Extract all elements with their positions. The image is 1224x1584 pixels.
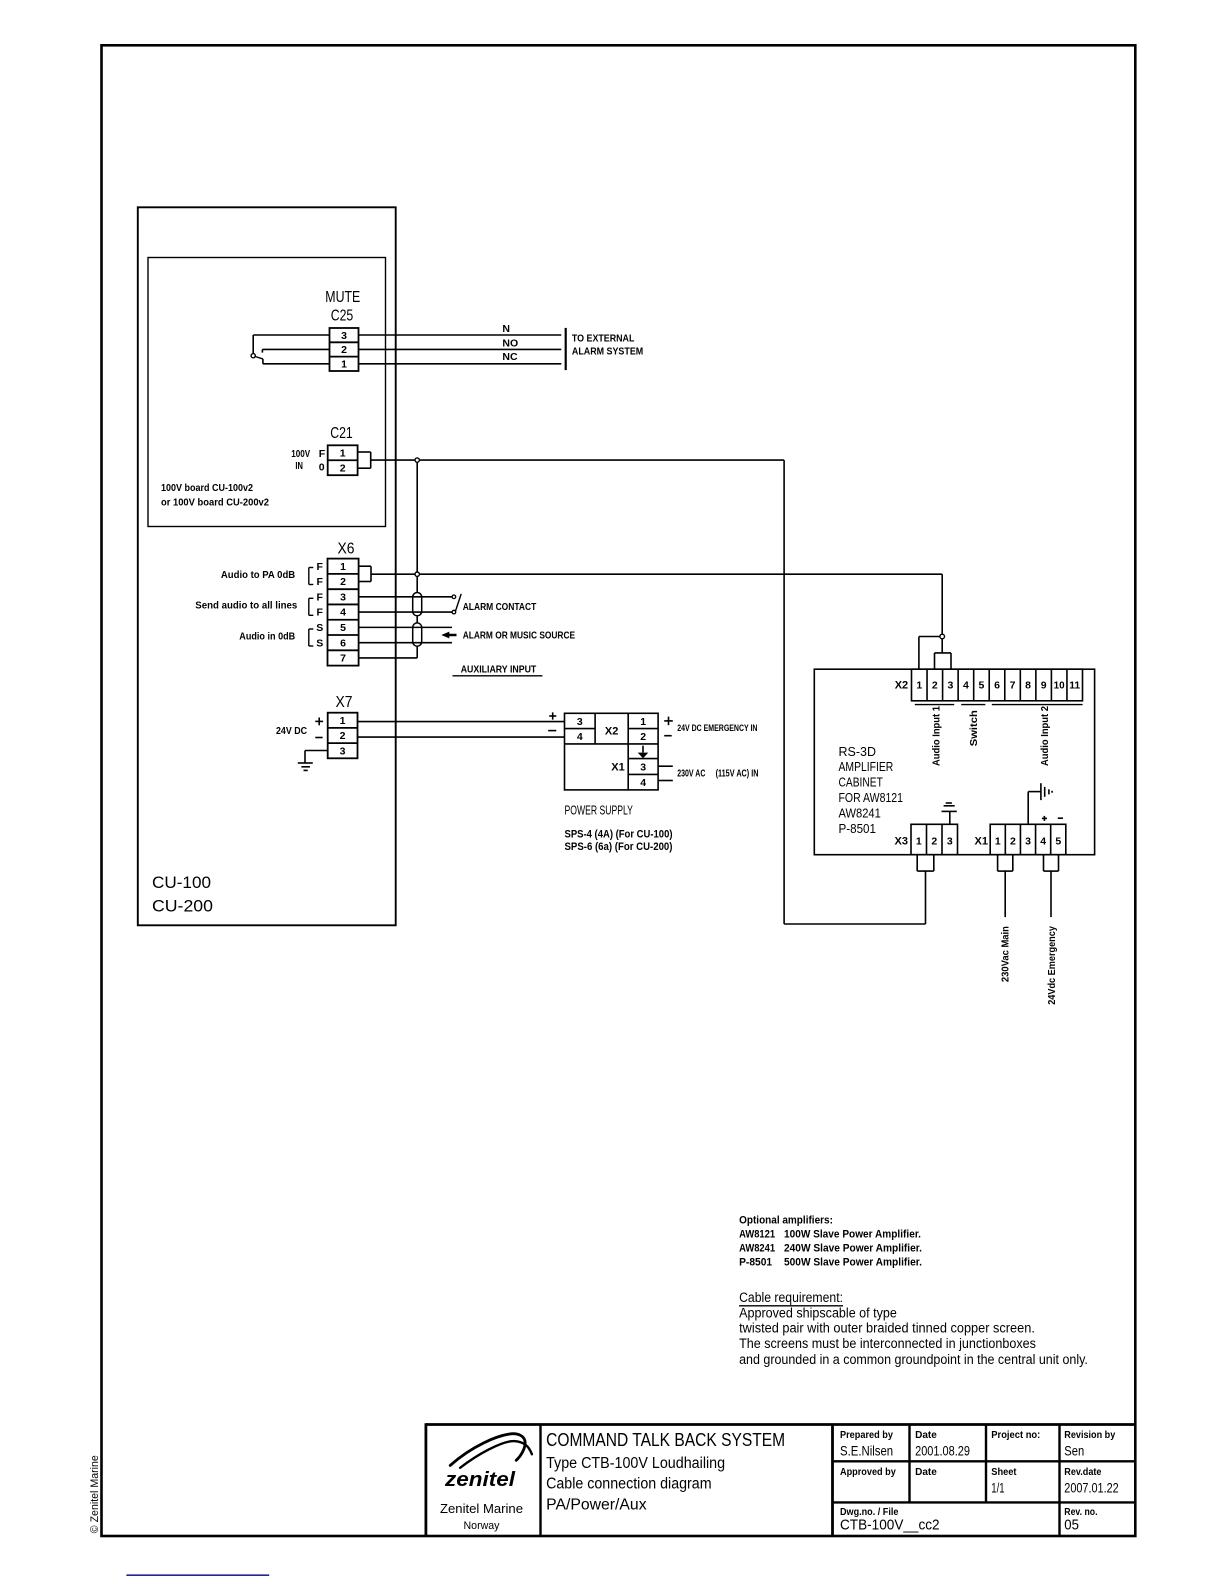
svg-text:100V: 100V <box>291 448 310 460</box>
svg-text:F: F <box>316 576 323 588</box>
svg-text:X6: X6 <box>338 540 355 557</box>
svg-text:X3: X3 <box>895 836 908 848</box>
svg-text:1: 1 <box>340 447 346 459</box>
svg-text:F: F <box>316 591 323 603</box>
svg-text:AW8241: AW8241 <box>739 1243 775 1255</box>
svg-text:ALARM CONTACT: ALARM CONTACT <box>463 601 537 613</box>
svg-text:twisted pair with outer braide: twisted pair with outer braided tinned c… <box>739 1321 1035 1336</box>
svg-text:Sen: Sen <box>1064 1443 1084 1458</box>
svg-text:2: 2 <box>932 680 938 692</box>
svg-text:TO EXTERNAL: TO EXTERNAL <box>572 333 635 345</box>
svg-text:4: 4 <box>963 680 969 692</box>
svg-text:COMMAND TALK BACK SYSTEM: COMMAND TALK BACK SYSTEM <box>546 1429 785 1450</box>
svg-text:5: 5 <box>340 622 346 634</box>
svg-text:4: 4 <box>340 607 346 619</box>
svg-text:2: 2 <box>341 344 347 356</box>
svg-text:2: 2 <box>340 730 346 742</box>
svg-text:X1: X1 <box>611 761 624 773</box>
svg-text:and grounded in a common groun: and grounded in a common groundpoint in … <box>739 1352 1088 1367</box>
svg-text:2: 2 <box>931 836 937 848</box>
svg-text:2001.08.29: 2001.08.29 <box>915 1443 970 1458</box>
svg-text:1: 1 <box>341 358 347 370</box>
svg-text:F: F <box>316 561 323 573</box>
svg-text:2: 2 <box>640 731 646 743</box>
svg-text:S.E.Nilsen: S.E.Nilsen <box>840 1443 893 1458</box>
svg-text:9: 9 <box>1041 680 1047 692</box>
svg-text:ALARM OR MUSIC SOURCE: ALARM OR MUSIC SOURCE <box>463 629 575 641</box>
svg-text:AW8241: AW8241 <box>839 806 881 820</box>
svg-text:RS-3D: RS-3D <box>839 745 877 759</box>
svg-text:F: F <box>316 607 323 619</box>
svg-text:1: 1 <box>340 561 346 573</box>
svg-text:SPS-4 (4A) (For CU-100): SPS-4 (4A) (For CU-100) <box>565 829 673 841</box>
svg-text:Audio in 0dB: Audio in 0dB <box>239 630 295 642</box>
svg-text:230V AC: 230V AC <box>677 769 705 780</box>
svg-text:24V DC: 24V DC <box>276 725 307 737</box>
svg-text:Sheet: Sheet <box>991 1467 1017 1478</box>
svg-text:X2: X2 <box>605 725 618 737</box>
svg-text:Switch: Switch <box>968 710 980 746</box>
svg-text:1: 1 <box>916 680 922 692</box>
svg-text:100W Slave Power Amplifier.: 100W Slave Power Amplifier. <box>784 1229 921 1241</box>
svg-text:AUXILIARY INPUT: AUXILIARY INPUT <box>461 664 537 676</box>
svg-text:2007.01.22: 2007.01.22 <box>1064 1480 1118 1495</box>
svg-text:CTB-100V__cc2: CTB-100V__cc2 <box>840 1516 940 1533</box>
svg-text:2: 2 <box>340 462 346 474</box>
svg-text:5: 5 <box>979 680 985 692</box>
svg-text:3: 3 <box>340 591 346 603</box>
svg-text:X2: X2 <box>895 680 908 692</box>
svg-text:1: 1 <box>916 836 922 848</box>
svg-text:3: 3 <box>947 836 953 848</box>
svg-text:8: 8 <box>1025 680 1031 692</box>
svg-text:P-8501: P-8501 <box>739 1257 772 1269</box>
svg-text:1: 1 <box>995 836 1001 848</box>
svg-text:24Vdc Emergency: 24Vdc Emergency <box>1046 926 1058 1005</box>
svg-text:Cable connection diagram: Cable connection diagram <box>546 1476 712 1493</box>
svg-text:1/1: 1/1 <box>991 1480 1004 1495</box>
svg-text:Audio Input 1: Audio Input 1 <box>931 706 943 766</box>
svg-text:4: 4 <box>577 731 583 743</box>
svg-text:P-8501: P-8501 <box>839 822 877 836</box>
svg-text:Optional amplifiers:: Optional amplifiers: <box>739 1214 833 1226</box>
svg-text:7: 7 <box>1010 680 1016 692</box>
svg-text:Norway: Norway <box>464 1520 500 1532</box>
svg-text:6: 6 <box>340 637 346 649</box>
svg-text:4: 4 <box>1040 836 1046 848</box>
svg-text:0: 0 <box>319 462 325 474</box>
svg-text:C25: C25 <box>331 307 354 324</box>
svg-text:MUTE: MUTE <box>325 289 360 306</box>
svg-text:NC: NC <box>502 351 518 363</box>
svg-text:10: 10 <box>1054 680 1065 692</box>
svg-text:05: 05 <box>1064 1516 1079 1533</box>
svg-text:or 100V board CU-200v2: or 100V board CU-200v2 <box>161 497 269 509</box>
svg-text:240W Slave Power Amplifier.: 240W Slave Power Amplifier. <box>784 1243 922 1255</box>
svg-text:Send audio to all lines: Send audio to all lines <box>195 600 297 612</box>
svg-text:IN: IN <box>295 460 303 472</box>
svg-text:1: 1 <box>640 716 646 728</box>
svg-text:1: 1 <box>340 715 346 727</box>
svg-text:3: 3 <box>1025 836 1031 848</box>
svg-text:© Zenitel Marine: © Zenitel Marine <box>89 1455 101 1533</box>
svg-text:ALARM SYSTEM: ALARM SYSTEM <box>572 346 644 358</box>
svg-text:Cable requirement:: Cable requirement: <box>739 1290 843 1305</box>
svg-text:Date: Date <box>915 1467 937 1478</box>
svg-text:4: 4 <box>640 777 646 789</box>
svg-text:FOR AW8121: FOR AW8121 <box>839 791 904 805</box>
svg-text:CU-100: CU-100 <box>152 873 211 892</box>
svg-text:Project no:: Project no: <box>991 1430 1040 1441</box>
svg-text:Type CTB-100V Loudhailing: Type CTB-100V Loudhailing <box>546 1455 725 1472</box>
svg-text:3: 3 <box>947 680 953 692</box>
svg-text:Audio to PA 0dB: Audio to PA 0dB <box>221 569 296 581</box>
svg-text:500W Slave Power Amplifier.: 500W Slave Power Amplifier. <box>784 1257 922 1269</box>
svg-text:6: 6 <box>994 680 1000 692</box>
svg-text:3: 3 <box>640 762 646 774</box>
svg-text:CU-200: CU-200 <box>152 897 213 916</box>
svg-text:The screens must be interconne: The screens must be interconnected in ju… <box>739 1336 1036 1351</box>
svg-text:AMPLIFIER: AMPLIFIER <box>839 760 894 774</box>
svg-text:F: F <box>319 448 326 460</box>
svg-text:SPS-6 (6a) (For CU-200): SPS-6 (6a) (For CU-200) <box>565 841 673 853</box>
svg-text:X7: X7 <box>336 694 353 711</box>
svg-text:2: 2 <box>340 576 346 588</box>
svg-text:Date: Date <box>915 1430 937 1441</box>
svg-text:5: 5 <box>1055 836 1061 848</box>
svg-text:NO: NO <box>502 337 518 349</box>
svg-text:100V board CU-100v2: 100V board CU-100v2 <box>161 482 253 494</box>
svg-text:zenitel: zenitel <box>444 1469 516 1491</box>
svg-text:N: N <box>502 323 510 335</box>
svg-text:7: 7 <box>340 653 346 665</box>
svg-text:Audio Input 2: Audio Input 2 <box>1039 706 1051 766</box>
svg-text:PA/Power/Aux: PA/Power/Aux <box>546 1497 647 1514</box>
svg-text:24V DC EMERGENCY IN: 24V DC EMERGENCY IN <box>677 723 757 734</box>
svg-text:(115V AC) IN: (115V AC) IN <box>716 769 759 780</box>
svg-text:S: S <box>316 622 323 634</box>
svg-text:230Vac Main: 230Vac Main <box>1000 926 1012 982</box>
svg-text:Zenitel Marine: Zenitel Marine <box>440 1501 523 1516</box>
svg-text:S: S <box>316 637 323 649</box>
svg-text:Approved by: Approved by <box>840 1467 896 1478</box>
svg-text:3: 3 <box>340 745 346 757</box>
svg-text:11: 11 <box>1069 680 1080 692</box>
svg-text:POWER SUPPLY: POWER SUPPLY <box>565 802 634 817</box>
svg-text:C21: C21 <box>330 425 353 442</box>
svg-text:3: 3 <box>341 330 347 342</box>
svg-text:Prepared by: Prepared by <box>840 1430 893 1441</box>
svg-text:X1: X1 <box>975 836 988 848</box>
svg-text:2: 2 <box>1010 836 1016 848</box>
svg-text:AW8121: AW8121 <box>739 1229 775 1241</box>
svg-text:Approved shipscable of type: Approved shipscable of type <box>739 1305 897 1320</box>
svg-text:Revision by: Revision by <box>1064 1430 1115 1441</box>
svg-text:Rev.date: Rev.date <box>1064 1467 1102 1478</box>
svg-text:CABINET: CABINET <box>839 776 884 790</box>
svg-text:3: 3 <box>577 716 583 728</box>
